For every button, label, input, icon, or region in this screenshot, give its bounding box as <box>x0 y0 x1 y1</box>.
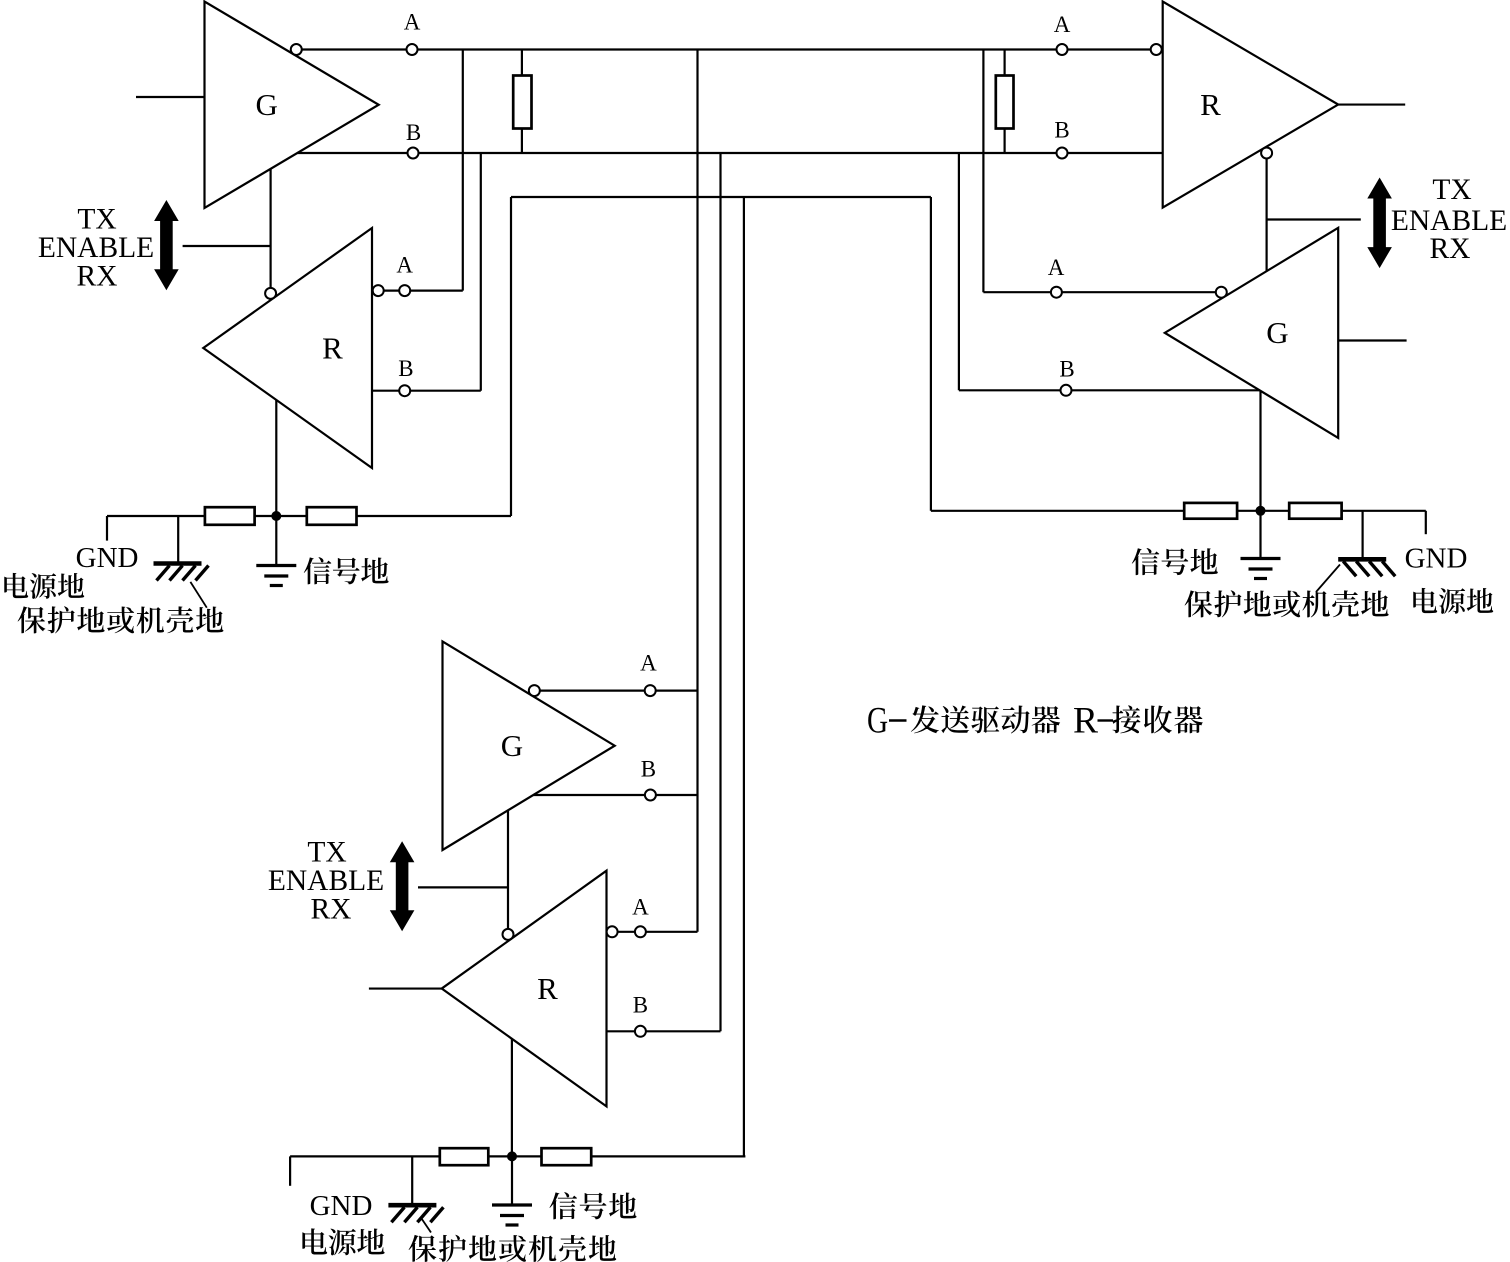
label signal-ground bottom <box>549 1192 636 1219</box>
chassis ground symbol bottom <box>388 1205 443 1232</box>
wire ground rail bottom station <box>290 1155 745 1157</box>
svg-text:ENABLE: ENABLE <box>268 865 384 897</box>
svg-text:A: A <box>1048 255 1065 280</box>
wire G1 input stub <box>136 96 205 98</box>
junction dot bottom ground <box>507 1151 517 1161</box>
label protective-or-chassis-ground left <box>18 606 224 633</box>
arrow TX-ENABLE-RX bottom <box>390 841 415 931</box>
svg-text:A: A <box>640 650 657 675</box>
wire ground rail right station <box>931 510 1426 512</box>
resistor RT2 <box>996 76 1014 129</box>
svg-text:A: A <box>396 253 413 278</box>
wire signal earth lead bottom <box>511 1156 513 1203</box>
svg-text:A: A <box>1054 12 1071 37</box>
node circle G2 B <box>1061 385 1072 396</box>
svg-text:G: G <box>867 700 888 741</box>
wire GND stub bottom <box>289 1156 291 1185</box>
wire bus B drop to station 3 <box>719 153 721 1031</box>
label protective-or-chassis-ground bottom <box>409 1235 617 1262</box>
wire chassis stub left <box>177 516 179 562</box>
arrow TX-ENABLE-RX right <box>1367 178 1392 269</box>
wire G3 enable drop <box>507 810 509 929</box>
receiver R1 <box>203 228 372 468</box>
svg-text:RX: RX <box>77 261 118 293</box>
wire G1 enable drop <box>270 169 272 289</box>
node circle B right <box>1057 148 1068 159</box>
wire R2 enable drop <box>1265 158 1267 272</box>
wire signal-ground riser right <box>930 197 932 511</box>
label power-ground left <box>4 573 84 599</box>
label signal-ground right <box>1132 548 1218 575</box>
node circle G3 B <box>645 790 656 801</box>
resistor ground bottom 2 <box>542 1148 592 1165</box>
pin circle R3 enable <box>503 929 514 940</box>
wire signal earth lead right <box>1259 511 1261 557</box>
resistor ground right 2 <box>1289 503 1341 519</box>
legend text receiver <box>1112 705 1203 733</box>
svg-text:B: B <box>641 756 656 781</box>
pin circle R3 input A <box>607 926 618 937</box>
wire G3 output B <box>533 794 697 796</box>
chassis ground symbol right <box>1316 559 1395 592</box>
label protective-or-chassis-ground right <box>1185 590 1389 617</box>
receiver R2 <box>1163 2 1339 208</box>
node circle R3 A <box>635 926 646 937</box>
driver G3 <box>443 641 615 850</box>
svg-text:ENABLE: ENABLE <box>38 232 154 264</box>
wire R1 ground tap <box>275 400 277 516</box>
svg-text:G: G <box>256 87 278 122</box>
pin circle G1 output A <box>291 44 302 55</box>
wire G2 input A <box>983 291 1226 293</box>
svg-text:RX: RX <box>1430 233 1471 265</box>
wire bus A to R1 input A <box>462 50 464 291</box>
label power-ground right <box>1413 588 1493 614</box>
wire R3 output stub <box>369 987 442 989</box>
node circle G3 A <box>645 685 656 696</box>
wire GND stub right <box>1425 511 1427 534</box>
node circle A right <box>1057 44 1068 55</box>
arrow TX-ENABLE-RX left <box>154 200 179 290</box>
pin circle R1 input A <box>373 285 384 296</box>
wire TX enable bottom <box>418 886 508 888</box>
wire G2 ground tap <box>1259 391 1261 511</box>
resistor ground bottom 1 <box>440 1148 489 1165</box>
wire bus B to R1 input B <box>480 153 482 391</box>
wire lead of termination resistor RT1 <box>521 50 523 154</box>
svg-text:GND: GND <box>76 542 139 574</box>
junction dot right ground <box>1256 506 1266 516</box>
signal earth symbol bottom <box>492 1205 532 1225</box>
driver G1 <box>205 2 379 209</box>
wire signal earth lead left <box>275 516 277 564</box>
pin circle G2 input A <box>1216 287 1227 298</box>
resistor RT1 <box>513 76 531 129</box>
svg-text:R: R <box>1200 87 1221 122</box>
svg-text:G: G <box>1266 315 1288 350</box>
svg-text:TX: TX <box>77 204 116 236</box>
wire R3 ground tap <box>511 1039 513 1157</box>
svg-text:B: B <box>406 120 421 145</box>
wire GND stub left <box>106 516 108 541</box>
resistor ground left 2 <box>307 507 357 525</box>
svg-text:G: G <box>501 728 523 763</box>
wire ground rail left station <box>107 515 511 517</box>
wire R2 output stub <box>1338 103 1405 105</box>
wire signal-ground interconnect horizontal <box>511 196 931 198</box>
wire G3 output A <box>540 689 698 691</box>
wire chassis stub bottom <box>411 1156 413 1203</box>
legend dash after G <box>889 719 907 721</box>
wire R3 input A <box>618 931 698 933</box>
pin circle G3 output A <box>529 685 540 696</box>
wire G2 input B <box>959 389 1260 391</box>
legend dash after R <box>1098 719 1114 721</box>
node circle G2 A <box>1051 287 1062 298</box>
svg-text:GND: GND <box>310 1190 373 1222</box>
receiver R3 <box>442 871 607 1107</box>
label signal-ground left <box>304 557 389 584</box>
wire bus A drop to station 3 <box>696 50 698 932</box>
svg-text:B: B <box>1054 118 1069 143</box>
signal earth symbol left <box>256 566 296 586</box>
svg-text:RX: RX <box>311 894 352 926</box>
svg-text:B: B <box>633 993 648 1018</box>
driver G2 <box>1165 228 1338 438</box>
wire chassis stub right <box>1361 511 1363 558</box>
wire bus B <box>297 152 1162 154</box>
chassis ground symbol left <box>154 564 209 608</box>
node circle R1 B <box>399 385 410 396</box>
node circle R1 A <box>399 285 410 296</box>
legend text transmit-driver <box>911 705 1060 733</box>
wire R1 input B <box>372 390 481 392</box>
node circle A left <box>407 44 418 55</box>
pin circle R2 input A <box>1151 44 1162 55</box>
node circle R3 B <box>635 1026 646 1037</box>
svg-text:R: R <box>1073 701 1098 742</box>
svg-text:R: R <box>322 330 343 365</box>
wire signal-ground riser left <box>510 197 512 516</box>
pin circle R1 enable <box>265 288 276 299</box>
svg-text:A: A <box>632 894 649 919</box>
node circle B left <box>408 148 419 159</box>
wire TX enable right <box>1267 218 1361 220</box>
wire bus A <box>296 48 1150 50</box>
wire signal-ground riser middle <box>743 197 745 1156</box>
junction dot left ground <box>271 511 281 521</box>
wire lead of termination resistor RT2 <box>1003 50 1005 154</box>
wire G2 output stub <box>1338 339 1406 341</box>
resistor ground right 1 <box>1184 503 1237 519</box>
wire R1 input A <box>384 290 463 292</box>
svg-text:TX: TX <box>1432 174 1471 206</box>
wire bus B drop to station 2 <box>958 153 960 390</box>
svg-text:B: B <box>1059 357 1074 382</box>
svg-text:A: A <box>404 10 421 35</box>
wire TX enable left <box>183 245 271 247</box>
signal earth symbol right <box>1241 559 1281 579</box>
pin circle R2 enable <box>1261 147 1272 158</box>
svg-text:GND: GND <box>1405 542 1468 574</box>
resistor ground left 1 <box>205 507 255 525</box>
wire bus A drop to station 2 <box>982 50 984 293</box>
svg-text:TX: TX <box>307 836 346 868</box>
svg-text:B: B <box>398 356 413 381</box>
label power-ground bottom <box>302 1228 384 1255</box>
svg-text:R: R <box>537 971 558 1006</box>
wire R3 input B <box>607 1030 721 1032</box>
